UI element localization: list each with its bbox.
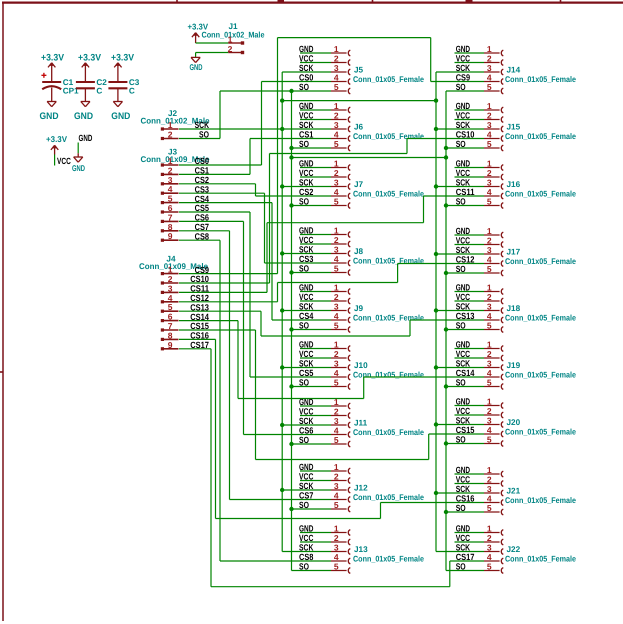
svg-text:9: 9 [168, 340, 173, 350]
svg-text:4: 4 [487, 425, 492, 435]
pin 2 (VCC) of J13 [299, 533, 350, 545]
svg-text:+3.3V: +3.3V [41, 52, 65, 63]
pin 1 (GND) of J12 [299, 462, 350, 474]
pin 1 (GND) of J13 [299, 523, 350, 535]
svg-text:5: 5 [334, 320, 339, 330]
connector J11 Conn_01x05_Female [353, 419, 424, 438]
pin 4 (CS5) of J10 [299, 368, 350, 380]
pin 1 (GND) of J10 [299, 339, 350, 351]
wire net CS8 [179, 240, 331, 561]
svg-text:J20: J20 [507, 418, 521, 427]
pin 4 (CS17) of J22 [456, 552, 504, 564]
svg-text:3: 3 [334, 358, 339, 368]
svg-text:Conn_01x05_Female: Conn_01x05_Female [505, 428, 576, 437]
pin 2 (VCC) of J11 [299, 406, 350, 418]
connector J6 Conn_01x05_Female [353, 123, 424, 142]
svg-text:2: 2 [334, 349, 339, 359]
capacitor C1 (CP1) [41, 73, 79, 102]
pin 2 (CS10) of J4 [161, 274, 209, 285]
pin 4 (CS4) of J9 [299, 311, 350, 323]
svg-text:2: 2 [334, 533, 339, 543]
svg-text:C: C [96, 87, 102, 96]
pin 3 (SCK) of J14 [456, 63, 504, 75]
svg-text:4: 4 [334, 129, 339, 139]
svg-text:1: 1 [228, 34, 233, 44]
svg-text:J18: J18 [507, 304, 521, 313]
pin 8 (CS7) of J3 [161, 222, 209, 233]
pin 3 (SCK) of J12 [299, 481, 350, 493]
connector J14 Conn_01x05_Female [505, 66, 576, 85]
connector J18 Conn_01x05_Female [505, 304, 576, 323]
svg-text:J12: J12 [354, 484, 368, 493]
pin 5 (SO) of J11 [299, 435, 350, 447]
connector J1 Conn_01x02_Male [202, 22, 265, 54]
pin 4 (CS8) of J13 [299, 552, 350, 564]
svg-text:1: 1 [487, 226, 492, 236]
pin 5 (SO) of J12 [299, 500, 350, 512]
pin 1 (GND) of J15 [456, 101, 504, 113]
svg-text:3: 3 [487, 542, 492, 552]
connector J17 Conn_01x05_Female [505, 248, 576, 267]
pin 9 (CS17) of J4 [161, 340, 209, 351]
svg-text:4: 4 [334, 254, 339, 264]
pin 4 (CS11) of J16 [456, 187, 504, 199]
pin 2 (VCC) of J18 [456, 292, 504, 304]
connector J21 Conn_01x05_Female [505, 487, 576, 506]
svg-text:2: 2 [334, 168, 339, 178]
wire net CS11 [179, 196, 484, 292]
wire net CS9 [179, 38, 484, 274]
pin 1 (GND) of J5 [299, 44, 350, 56]
pin 5 (SO) of J19 [456, 377, 504, 389]
svg-text:4: 4 [334, 552, 339, 562]
pin 2 (VCC) of J15 [456, 110, 504, 122]
svg-text:3: 3 [487, 415, 492, 425]
svg-text:3: 3 [487, 245, 492, 255]
pin 5 (CS4) of J3 [161, 194, 209, 205]
svg-text:GND: GND [111, 111, 130, 122]
svg-text:4: 4 [487, 368, 492, 378]
pin 2 (VCC) of J12 [299, 471, 350, 483]
pin 3 (SCK) of J5 [299, 63, 350, 75]
svg-text:Conn_01x05_Female: Conn_01x05_Female [353, 555, 424, 564]
connector J16 Conn_01x05_Female [505, 180, 576, 199]
pin 3 (SCK) of J8 [299, 244, 350, 256]
svg-text:5: 5 [334, 435, 339, 445]
pin 5 (SO) of J18 [456, 320, 504, 332]
svg-text:GND: GND [190, 62, 203, 72]
svg-text:J22: J22 [507, 545, 521, 554]
wire net CS17 [179, 349, 484, 587]
power +3.3V above C1 [41, 52, 65, 81]
pin 2 (VCC) of J20 [456, 406, 504, 418]
pin 5 (SO) of J15 [456, 139, 504, 151]
svg-text:4: 4 [334, 311, 339, 321]
pin 2 (VCC) of J17 [456, 235, 504, 247]
pin 1 (GND) of J18 [456, 282, 504, 294]
svg-text:2: 2 [334, 110, 339, 120]
svg-text:1: 1 [487, 523, 492, 533]
pin 1 (GND) of J19 [456, 339, 504, 351]
connector J22 Conn_01x05_Female [505, 545, 576, 564]
pin 3 (SCK) of J15 [456, 120, 504, 132]
svg-text:Conn_01x02_Male: Conn_01x02_Male [202, 31, 265, 40]
pin 1 (GND) of J9 [299, 282, 350, 294]
junction dots SO net [289, 89, 448, 514]
svg-text:5: 5 [487, 139, 492, 149]
svg-text:1: 1 [334, 462, 339, 472]
svg-text:2: 2 [487, 168, 492, 178]
connector J15 Conn_01x05_Female [505, 123, 576, 142]
svg-text:Conn_01x05_Female: Conn_01x05_Female [505, 371, 576, 380]
svg-text:5: 5 [334, 561, 339, 571]
wire net CS6 [179, 221, 331, 434]
svg-text:4: 4 [334, 187, 339, 197]
svg-text:1: 1 [487, 465, 492, 475]
pin 3 (CS11) of J4 [161, 283, 209, 294]
svg-text:5: 5 [334, 139, 339, 149]
connector J3 Conn_01x09_Male [141, 147, 210, 164]
svg-text:5: 5 [334, 377, 339, 387]
pin 5 (SO) of J21 [456, 503, 504, 515]
pin 1 (GND) of J17 [456, 226, 504, 238]
wire net CS10 [179, 139, 484, 284]
pin 6 (CS5) of J3 [161, 203, 209, 214]
pin 3 (SCK) of J17 [456, 245, 504, 257]
svg-text:1: 1 [334, 101, 339, 111]
svg-text:1: 1 [487, 282, 492, 292]
svg-text:3: 3 [334, 63, 339, 73]
svg-text:GND: GND [79, 133, 93, 143]
svg-text:1: 1 [487, 158, 492, 168]
pin 4 (CS16) of J21 [456, 493, 504, 505]
svg-text:Conn_01x05_Female: Conn_01x05_Female [505, 190, 576, 199]
pin 3 (SCK) of J19 [456, 358, 504, 370]
svg-text:J9: J9 [354, 304, 364, 313]
connector J13 Conn_01x05_Female [353, 545, 424, 564]
pin 1 (GND) of J7 [299, 158, 350, 170]
pin 4 (CS12) of J17 [456, 254, 504, 266]
svg-text:2: 2 [487, 474, 492, 484]
svg-text:2: 2 [334, 235, 339, 245]
svg-text:Conn_01x05_Female: Conn_01x05_Female [353, 428, 424, 437]
pin 4 (CS9) of J14 [456, 72, 504, 84]
connector J5 Conn_01x05_Female [353, 66, 424, 85]
svg-text:4: 4 [334, 490, 339, 500]
power +3.3V above C3 [111, 52, 135, 81]
pin 1 (GND) of J21 [456, 465, 504, 477]
svg-text:J8: J8 [354, 247, 364, 256]
svg-text:VCC: VCC [57, 156, 71, 166]
svg-text:Conn_01x05_Female: Conn_01x05_Female [505, 75, 576, 84]
wire GND/VCC label stubs (right column) [455, 53, 485, 542]
pin 5 (SO) of J6 [299, 139, 350, 151]
svg-text:1: 1 [334, 225, 339, 235]
svg-text:4: 4 [487, 311, 492, 321]
pin 4 (CS14) of J19 [456, 368, 504, 380]
svg-text:3: 3 [487, 358, 492, 368]
pin 5 (SO) of J13 [299, 561, 350, 573]
wire net CS16 [179, 339, 484, 518]
pin 3 (SCK) of J9 [299, 301, 350, 313]
svg-text:2: 2 [334, 292, 339, 302]
svg-text:GND: GND [74, 111, 93, 122]
connector J9 Conn_01x05_Female [353, 304, 424, 323]
pin 2 (VCC) of J7 [299, 168, 350, 180]
pin 5 (SO) of J17 [456, 264, 504, 276]
pin 9 (CS8) of J3 [161, 231, 209, 242]
svg-text:J7: J7 [354, 180, 364, 189]
svg-text:+3.3V: +3.3V [46, 134, 67, 144]
pin 7 (CS15) of J4 [161, 321, 209, 332]
pin 1 (GND) of J14 [456, 44, 504, 56]
pin 1 (GND) of J16 [456, 158, 504, 170]
pin 5 (CS13) of J4 [161, 302, 209, 313]
svg-text:J19: J19 [507, 361, 521, 370]
svg-text:4: 4 [487, 129, 492, 139]
pin 4 (CS15) of J20 [456, 425, 504, 437]
pin 5 (SO) of J8 [299, 263, 350, 275]
svg-text:J15: J15 [507, 123, 521, 132]
svg-text:1: 1 [334, 339, 339, 349]
pin 5 (SO) of J22 [456, 561, 504, 573]
connector J10 Conn_01x05_Female [353, 361, 424, 380]
pin 1 (GND) of J20 [456, 396, 504, 408]
pin 6 (CS14) of J4 [161, 312, 209, 323]
capacitor C2 (C) [76, 78, 107, 102]
svg-text:5: 5 [334, 82, 339, 92]
svg-text:1: 1 [487, 101, 492, 111]
pin 2 (SO) of J2 [161, 130, 209, 141]
wire net CS3 [179, 193, 331, 263]
svg-text:1: 1 [334, 158, 339, 168]
pin 2 (CS1) of J3 [161, 165, 209, 176]
svg-text:1: 1 [168, 120, 173, 130]
connector J8 Conn_01x05_Female [353, 247, 424, 266]
pin 3 (SCK) of J7 [299, 177, 350, 189]
svg-text:Conn_01x05_Female: Conn_01x05_Female [505, 132, 576, 141]
pin 5 (SO) of J20 [456, 434, 504, 446]
svg-text:1: 1 [334, 523, 339, 533]
svg-text:1: 1 [487, 339, 492, 349]
pin 5 (SO) of J9 [299, 320, 350, 332]
connector J12 Conn_01x05_Female [353, 484, 424, 503]
pin 5 (SO) of J14 [456, 82, 504, 94]
svg-text:3: 3 [487, 301, 492, 311]
svg-text:5: 5 [334, 196, 339, 206]
wire J1 pin2 to GND [196, 53, 229, 58]
svg-text:4: 4 [487, 552, 492, 562]
svg-text:Conn_01x05_Female: Conn_01x05_Female [505, 496, 576, 505]
svg-text:5: 5 [487, 196, 492, 206]
svg-text:3: 3 [487, 177, 492, 187]
pin 4 (CS3) of J3 [161, 184, 209, 195]
pin 8 (CS16) of J4 [161, 330, 209, 341]
pin 1 (GND) of J11 [299, 397, 350, 409]
svg-text:Conn_01x05_Female: Conn_01x05_Female [353, 132, 424, 141]
svg-text:J13: J13 [354, 545, 368, 554]
pin 1 (SCK) of J2 [161, 120, 210, 131]
pin 3 (SCK) of J21 [456, 484, 504, 496]
svg-text:J5: J5 [354, 66, 364, 75]
junction dots SCK net [280, 98, 438, 495]
svg-text:+3.3V: +3.3V [111, 52, 135, 63]
svg-text:1: 1 [334, 282, 339, 292]
svg-text:J11: J11 [354, 419, 368, 428]
svg-text:J14: J14 [507, 66, 521, 75]
svg-text:9: 9 [168, 231, 173, 241]
wire J1 pin1 to +3.3V [196, 42, 229, 44]
svg-text:4: 4 [487, 254, 492, 264]
svg-text:3: 3 [334, 244, 339, 254]
pin 5 (SO) of J7 [299, 196, 350, 208]
pin 4 (CS12) of J4 [161, 293, 209, 304]
pin 3 (SCK) of J20 [456, 415, 504, 427]
svg-text:5: 5 [487, 377, 492, 387]
svg-text:3: 3 [334, 542, 339, 552]
svg-text:4: 4 [334, 72, 339, 82]
svg-text:2: 2 [487, 292, 492, 302]
wire net CS7 [179, 231, 331, 500]
svg-text:2: 2 [487, 53, 492, 63]
capacitor C3 (C) [108, 78, 139, 102]
svg-text:J16: J16 [507, 180, 521, 189]
pin 4 (CS7) of J12 [299, 490, 350, 502]
pin 3 (SCK) of J18 [456, 301, 504, 313]
pin 1 (GND) of J22 [456, 523, 504, 535]
pin 4 (CS1) of J6 [299, 129, 350, 141]
svg-text:3: 3 [334, 416, 339, 426]
wire net CS0 [179, 82, 331, 166]
svg-text:1: 1 [487, 44, 492, 54]
svg-text:1: 1 [334, 44, 339, 54]
svg-text:4: 4 [487, 187, 492, 197]
ground symbol below C1 [40, 102, 59, 123]
ground symbol below J1 [190, 57, 203, 72]
svg-text:+3.3V: +3.3V [78, 52, 102, 63]
svg-text:GND: GND [40, 111, 59, 122]
svg-text:3: 3 [487, 120, 492, 130]
wire net CS14 [179, 321, 484, 399]
svg-text:Conn_01x05_Female: Conn_01x05_Female [353, 493, 424, 502]
connector J7 Conn_01x05_Female [353, 180, 424, 199]
svg-text:Conn_01x05_Female: Conn_01x05_Female [353, 257, 424, 266]
svg-text:Conn_01x05_Female: Conn_01x05_Female [353, 190, 424, 199]
connector J19 Conn_01x05_Female [505, 361, 576, 380]
svg-text:Conn_01x05_Female: Conn_01x05_Female [353, 75, 424, 84]
svg-text:4: 4 [334, 425, 339, 435]
pin 2 (VCC) of J5 [299, 53, 350, 65]
svg-text:GND: GND [72, 163, 85, 173]
svg-text:Conn_01x05_Female: Conn_01x05_Female [505, 314, 576, 323]
svg-text:4: 4 [487, 72, 492, 82]
pin 5 (SO) of J10 [299, 377, 350, 389]
svg-text:5: 5 [487, 434, 492, 444]
pin 2 (VCC) of J16 [456, 168, 504, 180]
wire GND/VCC label stubs (left column) [300, 53, 331, 542]
pin 3 (SCK) of J22 [456, 542, 504, 554]
pin 2 (VCC) of J14 [456, 53, 504, 65]
svg-text:5: 5 [487, 264, 492, 274]
wire net CS13 [179, 311, 484, 336]
power +3.3V above C2 [78, 52, 102, 81]
wire net SCK: left bus, link, right bus [179, 72, 484, 552]
svg-text:Conn_01x05_Female: Conn_01x05_Female [353, 314, 424, 323]
svg-text:2: 2 [487, 533, 492, 543]
ground symbol below C3 [111, 102, 130, 123]
svg-text:Conn_01x05_Female: Conn_01x05_Female [505, 257, 576, 266]
pin 7 (CS6) of J3 [161, 212, 209, 223]
pin 4 (CS3) of J8 [299, 254, 350, 266]
svg-text:3: 3 [334, 177, 339, 187]
svg-text:5: 5 [487, 561, 492, 571]
power +3.3V above J1 [188, 21, 209, 43]
svg-text:J21: J21 [507, 487, 521, 496]
svg-text:4: 4 [487, 493, 492, 503]
wire net CS5 [179, 212, 331, 377]
svg-text:4: 4 [334, 368, 339, 378]
svg-text:5: 5 [487, 82, 492, 92]
power +3.3V to VCC tie [46, 134, 71, 166]
pin 4 (CS6) of J11 [299, 425, 350, 437]
svg-text:5: 5 [487, 320, 492, 330]
pin 2 (VCC) of J9 [299, 292, 350, 304]
wire net CS2 [179, 184, 331, 196]
svg-text:2: 2 [334, 53, 339, 63]
pin 4 (CS0) of J5 [299, 72, 350, 84]
pin 2 (VCC) of J10 [299, 349, 350, 361]
pin 3 (SCK) of J13 [299, 542, 350, 554]
pin 3 (SCK) of J16 [456, 177, 504, 189]
wire net CS1 [179, 139, 331, 175]
pin 2 (VCC) of J22 [456, 533, 504, 545]
wire net SO: J2 feed, left bus, link, right bus [179, 91, 484, 571]
connector J20 Conn_01x05_Female [505, 418, 576, 437]
pin 4 (CS13) of J18 [456, 311, 504, 323]
svg-text:3: 3 [334, 301, 339, 311]
pin 2 (VCC) of J21 [456, 474, 504, 486]
pin 1 (GND) of J8 [299, 225, 350, 237]
svg-text:2: 2 [487, 235, 492, 245]
pin 3 (SCK) of J6 [299, 120, 350, 132]
pin 2 (VCC) of J8 [299, 235, 350, 247]
svg-text:C: C [129, 87, 135, 96]
svg-text:Conn_01x05_Female: Conn_01x05_Female [505, 555, 576, 564]
pin 3 (SCK) of J10 [299, 358, 350, 370]
svg-text:J6: J6 [354, 123, 364, 132]
pin 4 (CS2) of J7 [299, 187, 350, 199]
svg-text:5: 5 [334, 263, 339, 273]
svg-text:2: 2 [228, 44, 233, 54]
svg-text:5: 5 [487, 503, 492, 513]
svg-text:1: 1 [487, 396, 492, 406]
svg-text:3: 3 [487, 484, 492, 494]
pin 5 (SO) of J5 [299, 82, 350, 94]
ground symbol below C2 [74, 102, 93, 123]
svg-text:2: 2 [487, 349, 492, 359]
wire net CS12 [179, 264, 484, 302]
pin 5 (SO) of J16 [456, 196, 504, 208]
GND label to ground symbol tie [72, 133, 93, 173]
svg-text:2: 2 [168, 130, 173, 140]
pin 2 (VCC) of J19 [456, 349, 504, 361]
connector J4 Conn_01x09_Male [139, 254, 208, 271]
pin 1 (GND) of J6 [299, 101, 350, 113]
svg-text:3: 3 [334, 120, 339, 130]
pin 4 (CS10) of J15 [456, 129, 504, 141]
svg-text:2: 2 [487, 406, 492, 416]
svg-text:2: 2 [334, 471, 339, 481]
